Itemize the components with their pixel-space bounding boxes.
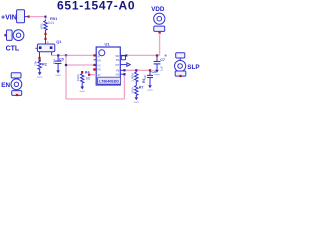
U1 part name box — [98, 77, 121, 84]
svg-text:R6: R6 — [142, 79, 146, 83]
resistor R4 endpoint — [81, 71, 83, 73]
resistor R2 junction dot — [39, 59, 41, 61]
svg-text:R7: R7 — [139, 86, 144, 90]
capacitor C5 lead — [57, 56, 59, 61]
Q1 gate stub — [35, 47, 37, 49]
capacitor C7 lead — [156, 56, 158, 62]
svg-text:0.01: 0.01 — [48, 21, 54, 25]
svg-text:SY: SY — [97, 74, 101, 77]
svg-text:EN: EN — [97, 59, 101, 62]
ground below R7 — [135, 97, 139, 100]
svg-text:100k: 100k — [76, 74, 80, 81]
ground below C6 — [148, 85, 152, 88]
svg-text:SS: SS — [86, 76, 90, 80]
pin dot VDD — [159, 32, 161, 34]
net arrow flag at pin BST — [127, 63, 130, 67]
svg-text:VC: VC — [97, 64, 101, 67]
svg-text:C5: C5 — [59, 58, 64, 62]
svg-text:WSL: WSL — [39, 22, 43, 29]
pin dot SLP — [179, 75, 181, 77]
svg-text:Q1: Q1 — [56, 39, 62, 44]
connector EN pad top — [11, 73, 21, 78]
connector EN ring — [11, 79, 22, 90]
junction dot loop — [65, 54, 67, 56]
svg-text:U1: U1 — [105, 42, 111, 47]
wire +VIN to R1 (pink net) — [30, 17, 46, 20]
svg-text:1uF: 1uF — [160, 66, 164, 71]
junction dot 2 — [44, 38, 46, 40]
wire net B (pink) to U1 pin2 — [66, 64, 95, 66]
wire R1 to Q1 — [45, 31, 47, 44]
connector SLP pad top — [176, 53, 185, 58]
connector J1 +VIN body — [17, 10, 25, 23]
connector VDD pad — [154, 26, 165, 31]
svg-text:VDD: VDD — [151, 6, 165, 13]
svg-text:SLP: SLP — [187, 64, 199, 71]
ground below C5 — [56, 70, 60, 73]
junction dot flag — [125, 54, 127, 56]
wire corner dot — [44, 16, 46, 18]
junction dot divider — [135, 69, 137, 71]
wire pink loop left vertical — [65, 55, 67, 99]
resistor R1 — [44, 20, 47, 31]
junction dot C7 — [156, 54, 158, 56]
resistor R6 — [135, 70, 138, 83]
pin junction dot FB — [123, 69, 125, 71]
pin dot U1 pin1 — [93, 54, 95, 56]
wire net VDD (pink) pin SW to VDD — [127, 54, 159, 56]
pin dot EN — [16, 94, 18, 96]
resistor R7 — [135, 83, 138, 97]
op-amp U1 body — [96, 47, 120, 85]
connector CTL pin dot — [4, 34, 6, 36]
svg-text:EN: EN — [1, 82, 10, 89]
svg-text:FB: FB — [116, 69, 119, 72]
connector J1 pin stub — [25, 16, 29, 18]
capacitor C5 — [55, 60, 62, 62]
capacitor C7 lower lead — [156, 64, 158, 70]
pin dot U1 pin2 — [93, 64, 95, 66]
junction dot — [44, 33, 46, 35]
resistor R4 — [81, 73, 84, 87]
svg-text:INT: INT — [115, 64, 119, 67]
pin dot +VIN — [28, 16, 30, 18]
connector EN stub — [15, 78, 17, 79]
net flag at pin SW — [121, 56, 125, 60]
connector EN pad bottom — [12, 91, 22, 96]
pin dot U1 pin4 — [93, 68, 95, 70]
connector CTL ring — [13, 30, 24, 41]
connector CTL pad — [7, 30, 13, 40]
svg-text:651-1547-A0: 651-1547-A0 — [57, 0, 135, 13]
wire stub U1 pin5 — [88, 74, 96, 76]
svg-text:IN: IN — [97, 55, 100, 58]
svg-text:R2: R2 — [42, 63, 47, 67]
U1 left pin stubs — [94, 54, 97, 56]
Q1 pad right — [50, 46, 53, 49]
wire stub end near SLP — [165, 55, 167, 57]
svg-text:PG: PG — [97, 68, 101, 71]
transistor Q1 body — [37, 44, 54, 52]
Q1 right leg — [51, 52, 53, 56]
Q1 pad left — [39, 46, 42, 49]
svg-text:10k: 10k — [34, 60, 38, 65]
junction dot C5 — [57, 54, 59, 56]
svg-text:191k: 191k — [130, 87, 134, 94]
svg-text:C7: C7 — [160, 58, 165, 62]
svg-text:10u: 10u — [52, 59, 56, 64]
svg-text:C6: C6 — [151, 70, 156, 74]
capacitor C7 — [154, 61, 161, 63]
wire pink loop right vertical — [123, 74, 125, 99]
resistor R2 — [38, 61, 41, 72]
wire VDD down (pink) — [159, 33, 161, 55]
wire net A (pink) Q1 to U1 pin1 — [52, 54, 95, 56]
connector SLP ring — [175, 60, 186, 71]
connector VDD ring — [154, 13, 165, 24]
ground below C7 — [155, 70, 159, 73]
ground below R2 — [38, 72, 42, 75]
capacitor C6 — [147, 74, 153, 76]
svg-text:LT8640EDD: LT8640EDD — [99, 80, 119, 84]
junction dot C6 — [149, 69, 151, 71]
svg-text:GN: GN — [116, 73, 120, 76]
U1 right pin stubs — [120, 54, 127, 56]
capacitor C6 lower lead — [149, 78, 151, 86]
Q1 left leg endpoint — [38, 57, 40, 59]
svg-text:1.00M: 1.00M — [130, 73, 134, 82]
svg-text:CTL: CTL — [6, 45, 20, 52]
wire net FB (pink) — [124, 69, 150, 71]
pin junction dot loop — [123, 73, 125, 75]
U1 pin1 indicator circle — [99, 50, 105, 56]
capacitor C5 lower lead — [57, 64, 59, 71]
connector SLP pad bottom — [175, 71, 186, 76]
svg-text:BS: BS — [116, 59, 120, 62]
ground below R4 — [80, 87, 84, 90]
capacitor C6 lead — [149, 71, 151, 75]
connector SLP stub — [179, 58, 181, 61]
svg-text:+VIN: +VIN — [1, 15, 17, 22]
Q1 left leg — [39, 52, 41, 57]
junction dot — [65, 64, 67, 66]
wire pink loop bottom — [66, 98, 124, 100]
